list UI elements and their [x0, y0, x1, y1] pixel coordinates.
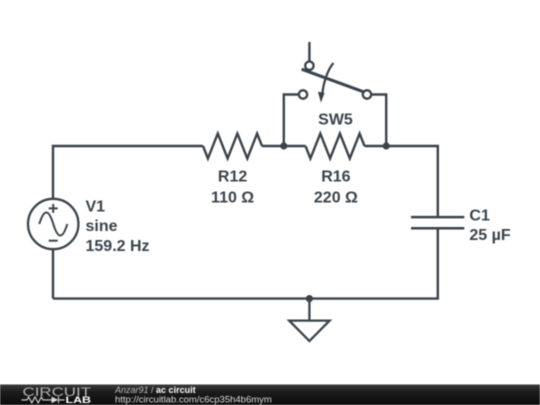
- svg-text:220 Ω: 220 Ω: [314, 189, 358, 206]
- svg-text:SW5: SW5: [318, 111, 353, 128]
- ground: [289, 299, 329, 341]
- svg-text:http://circuitlab.com/c6cp35h4: http://circuitlab.com/c6cp35h4b6mym: [115, 395, 272, 405]
- node junction left of R16: [280, 142, 287, 149]
- svg-text:C1: C1: [469, 207, 490, 224]
- wire V1 bottom: [52, 249, 54, 298]
- label SW5: [318, 111, 353, 128]
- label C1 value: [469, 207, 510, 244]
- wire switch right branch: [371, 95, 386, 147]
- wire R12 to R16: [262, 145, 306, 147]
- resistor R12: [203, 134, 262, 159]
- svg-text:sine: sine: [86, 218, 118, 235]
- label R12 value: [211, 169, 254, 207]
- switch SW5 motion arrow: [322, 63, 333, 94]
- capacitor C1: [411, 217, 464, 228]
- svg-text:R16: R16: [321, 169, 350, 186]
- label R16 value: [314, 169, 358, 207]
- svg-text:110 Ω: 110 Ω: [211, 189, 254, 206]
- switch SW5 right throw terminal: [363, 90, 371, 98]
- footer bar: [0, 385, 540, 405]
- wire top-left from V1 to R12: [53, 146, 203, 199]
- switch SW5 pole terminal: [305, 61, 313, 69]
- label V1 value: [86, 198, 150, 255]
- svg-text:V1: V1: [86, 198, 106, 215]
- switch SW5 lever: [302, 69, 364, 92]
- resistor R16: [306, 134, 365, 159]
- switch SW5: [299, 61, 371, 102]
- CircuitLab logo: [22, 385, 92, 405]
- wire switch left branch: [284, 95, 299, 147]
- svg-text:Anzar91 / ac circuit: Anzar91 / ac circuit: [114, 385, 196, 395]
- node junction right of R16: [383, 142, 390, 149]
- switch SW5 left throw terminal: [299, 90, 307, 98]
- svg-text:159.2 Hz: 159.2 Hz: [86, 238, 150, 255]
- wire R16 to top-right corner and down to C1: [365, 146, 438, 217]
- svg-text:R12: R12: [218, 169, 247, 186]
- node junction at ground: [306, 295, 313, 302]
- svg-text:LAB: LAB: [66, 395, 92, 405]
- voltage source V1: [28, 199, 78, 249]
- footer title text: [114, 385, 272, 405]
- wire C1 bottom to bottom-right corner and bottom rail: [53, 228, 438, 298]
- wire switch pole stub: [308, 42, 310, 62]
- svg-text:25 µF: 25 µF: [469, 227, 510, 244]
